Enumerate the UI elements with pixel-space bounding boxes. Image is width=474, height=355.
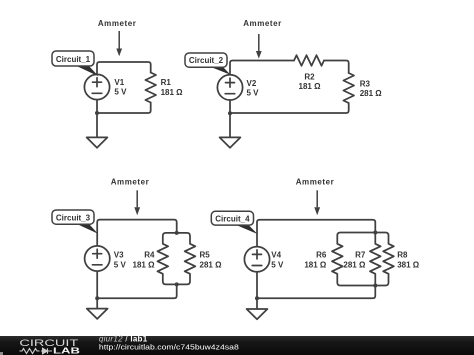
svg-text:181 Ω: 181 Ω [299, 82, 322, 91]
svg-text:5 V: 5 V [247, 88, 260, 97]
svg-text:181 Ω: 181 Ω [161, 88, 184, 97]
svg-text:V1: V1 [114, 78, 124, 87]
svg-text:181 Ω: 181 Ω [304, 261, 327, 270]
svg-text:Circuit_1: Circuit_1 [56, 55, 91, 64]
svg-text:V2: V2 [247, 79, 257, 88]
svg-text:5 V: 5 V [271, 261, 284, 270]
svg-text:Ammeter: Ammeter [243, 19, 282, 28]
svg-text:Ammeter: Ammeter [98, 19, 137, 28]
svg-text:R2: R2 [304, 72, 315, 81]
svg-text:R3: R3 [360, 80, 371, 89]
svg-text:Circuit_3: Circuit_3 [56, 213, 91, 222]
svg-text:R5: R5 [200, 251, 211, 260]
svg-text:5 V: 5 V [114, 88, 127, 97]
svg-text:R7: R7 [355, 251, 366, 260]
svg-text:LAB: LAB [53, 345, 80, 355]
svg-text:Circuit_4: Circuit_4 [215, 215, 250, 224]
svg-text:281 Ω: 281 Ω [343, 261, 366, 270]
svg-text:V4: V4 [271, 251, 281, 260]
svg-text:281 Ω: 281 Ω [360, 89, 383, 98]
svg-text:5 V: 5 V [114, 261, 127, 270]
svg-text:381 Ω: 381 Ω [397, 261, 420, 270]
svg-text:Ammeter: Ammeter [296, 177, 335, 186]
svg-text:Ammeter: Ammeter [111, 177, 150, 186]
svg-text:281 Ω: 281 Ω [200, 261, 223, 270]
svg-text:181 Ω: 181 Ω [133, 261, 156, 270]
svg-text:R8: R8 [397, 251, 408, 260]
svg-text:R6: R6 [316, 251, 327, 260]
svg-text:http://circuitlab.com/c745buw4: http://circuitlab.com/c745buw4z4sa8 [99, 342, 239, 351]
svg-text:Circuit_2: Circuit_2 [189, 56, 224, 65]
svg-text:R4: R4 [144, 251, 155, 260]
svg-text:V3: V3 [114, 251, 124, 260]
svg-text:R1: R1 [161, 78, 172, 87]
